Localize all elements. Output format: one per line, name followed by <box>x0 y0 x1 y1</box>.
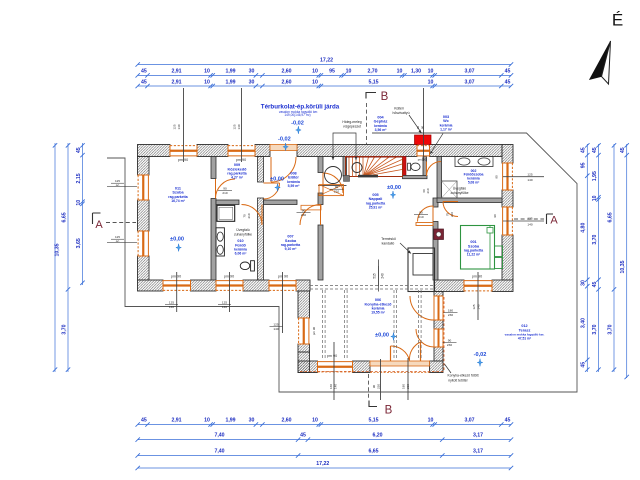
002 basin counter <box>455 157 493 167</box>
svg-text:30: 30 <box>249 417 255 423</box>
svg-text:Terméskő: Terméskő <box>381 237 396 241</box>
svg-text:180: 180 <box>448 309 453 313</box>
svg-text:Hideg-meleg: Hideg-meleg <box>342 120 361 124</box>
orange bar above door 005-001 <box>416 223 433 226</box>
svg-text:140: 140 <box>222 305 227 309</box>
svg-text:É: É <box>612 11 623 30</box>
window W4 pm90 <box>170 145 197 157</box>
svg-text:3,70: 3,70 <box>592 324 598 334</box>
svg-text:2,70: 2,70 <box>367 69 377 75</box>
svg-text:-0,02: -0,02 <box>291 120 304 126</box>
svg-text:140: 140 <box>177 124 181 129</box>
svg-text:90: 90 <box>420 126 424 130</box>
svg-text:3,56 m²: 3,56 m² <box>375 128 388 132</box>
kitchen dashed lines <box>322 290 324 360</box>
svg-text:210: 210 <box>247 213 251 218</box>
svg-text:6,65: 6,65 <box>61 212 67 222</box>
svg-text:7,40: 7,40 <box>214 448 224 454</box>
svg-text:140: 140 <box>333 384 337 389</box>
svg-text:45: 45 <box>505 417 511 423</box>
svg-text:125: 125 <box>169 301 174 305</box>
red new wall at stairs <box>403 157 407 177</box>
svg-text:2,60: 2,60 <box>281 417 291 423</box>
svg-text:45: 45 <box>141 79 147 85</box>
sidewalk and terrace boundary <box>107 133 577 392</box>
svg-text:90: 90 <box>223 187 227 191</box>
svg-text:30: 30 <box>249 79 255 85</box>
window Wr2 <box>502 207 513 235</box>
svg-text:10: 10 <box>204 69 210 75</box>
svg-text:7,40: 7,40 <box>214 432 224 438</box>
svg-text:60: 60 <box>422 189 426 193</box>
svg-text:90: 90 <box>335 185 339 189</box>
section marker B top <box>366 93 376 99</box>
svg-text:210: 210 <box>334 190 339 194</box>
svg-text:pm 90: pm 90 <box>327 354 337 358</box>
svg-text:3,40: 3,40 <box>581 318 587 328</box>
svg-text:1,95: 1,95 <box>592 171 598 181</box>
svg-text:240: 240 <box>381 273 385 279</box>
door 008-005 <box>323 173 343 193</box>
002 shower <box>442 181 458 198</box>
svg-text:230: 230 <box>448 313 453 317</box>
svg-text:140: 140 <box>237 124 241 129</box>
svg-text:60: 60 <box>116 184 120 188</box>
svg-text:10: 10 <box>312 79 318 85</box>
window W2 <box>216 280 243 291</box>
svg-text:10,35: 10,35 <box>620 260 626 273</box>
svg-text:kandalló: kandalló <box>382 241 395 245</box>
svg-text:5,15: 5,15 <box>368 79 378 85</box>
svg-text:A: A <box>550 215 558 227</box>
kitchen right door 90/230 <box>434 329 443 347</box>
svg-text:95: 95 <box>581 162 587 168</box>
interior walls <box>211 157 216 179</box>
svg-text:115: 115 <box>115 179 120 183</box>
010 wc fixture <box>251 261 255 271</box>
door 007 <box>300 205 321 226</box>
north arrow <box>590 11 624 85</box>
svg-text:10: 10 <box>204 79 210 85</box>
kitchen terrace double door opening <box>370 361 430 366</box>
svg-text:125: 125 <box>233 124 237 129</box>
svg-text:60: 60 <box>116 240 120 244</box>
svg-text:10: 10 <box>346 69 352 75</box>
svg-text:pm 90: pm 90 <box>312 327 316 336</box>
svg-text:hőszivattyú: hőszivattyú <box>393 111 410 115</box>
svg-text:pm 90: pm 90 <box>178 158 188 162</box>
door 011 <box>216 179 236 199</box>
svg-text:Kültéri: Kültéri <box>394 106 404 110</box>
svg-text:4,27 m²: 4,27 m² <box>231 176 244 180</box>
svg-text:90: 90 <box>495 175 499 179</box>
svg-text:10: 10 <box>428 417 434 423</box>
section marker B bottom <box>368 374 370 398</box>
svg-text:125: 125 <box>527 172 532 176</box>
window Wa 115/60 <box>138 175 150 200</box>
svg-text:5,59 m²: 5,59 m² <box>288 184 301 188</box>
svg-text:3,07: 3,07 <box>464 417 474 423</box>
svg-text:B: B <box>385 405 393 417</box>
svg-text:210: 210 <box>222 191 227 195</box>
svg-text:16,74 m²: 16,74 m² <box>171 199 185 203</box>
door 005-001 <box>418 206 434 222</box>
svg-text:11,22 m²: 11,22 m² <box>467 253 481 257</box>
svg-text:180: 180 <box>402 384 406 389</box>
svg-text:-0,02: -0,02 <box>474 352 487 358</box>
001 furniture green <box>461 226 503 270</box>
stair newel block <box>344 175 350 181</box>
svg-text:5,08 m²: 5,08 m² <box>468 181 480 185</box>
svg-text:90: 90 <box>302 209 306 213</box>
svg-text:140: 140 <box>527 178 532 182</box>
svg-text:125: 125 <box>472 304 476 309</box>
svg-text:1,99: 1,99 <box>225 417 235 423</box>
door arc entrance <box>271 157 296 182</box>
svg-text:10: 10 <box>312 69 318 75</box>
svg-text:10: 10 <box>428 79 434 85</box>
window W3 <box>269 280 296 291</box>
svg-text:10: 10 <box>312 417 318 423</box>
door 008-009 <box>264 183 280 199</box>
svg-text:3,70: 3,70 <box>592 234 598 244</box>
section marker A left <box>93 213 101 224</box>
kitchen right door 180/230 <box>434 296 443 320</box>
svg-text:90: 90 <box>419 211 423 215</box>
svg-text:45: 45 <box>141 417 147 423</box>
svg-text:3,17: 3,17 <box>473 448 483 454</box>
svg-text:45: 45 <box>76 147 82 153</box>
svg-text:5,15: 5,15 <box>368 417 378 423</box>
svg-text:A: A <box>95 219 103 231</box>
svg-text:125: 125 <box>173 124 177 129</box>
window Wr1 <box>502 163 513 190</box>
svg-text:10: 10 <box>428 69 434 75</box>
svg-text:Üvegfalú: Üvegfalú <box>453 187 466 191</box>
svg-text:2,91: 2,91 <box>171 69 181 75</box>
svg-text:230: 230 <box>376 384 380 389</box>
svg-text:pm 90: pm 90 <box>472 274 482 278</box>
window W5 pm90 <box>228 145 255 157</box>
svg-text:25,91 m²: 25,91 m² <box>369 205 383 209</box>
svg-text:6,65: 6,65 <box>368 448 378 454</box>
svg-text:4,80: 4,80 <box>581 223 587 233</box>
svg-text:45: 45 <box>592 147 598 153</box>
010 shower tray <box>217 205 235 221</box>
section marker A right <box>514 218 544 220</box>
svg-text:210: 210 <box>418 215 423 219</box>
svg-text:45: 45 <box>620 147 626 153</box>
svg-text:70: 70 <box>243 214 247 218</box>
007 radiator <box>301 205 321 210</box>
svg-text:90: 90 <box>448 339 452 343</box>
svg-text:3,65: 3,65 <box>76 238 82 248</box>
bottom dimension chains <box>138 424 511 426</box>
svg-text:30: 30 <box>581 280 587 286</box>
door 010 <box>242 205 263 226</box>
svg-text:45: 45 <box>581 362 587 368</box>
svg-text:2,15: 2,15 <box>76 173 82 183</box>
svg-text:nyitott tetőtér: nyitott tetőtér <box>448 378 468 382</box>
svg-text:140: 140 <box>476 304 480 309</box>
svg-text:±0,00: ±0,00 <box>170 237 184 243</box>
svg-text:2,91: 2,91 <box>171 79 181 85</box>
flue box <box>434 229 444 240</box>
svg-text:pm 90: pm 90 <box>278 274 288 278</box>
svg-text:45: 45 <box>505 69 511 75</box>
svg-text:3,07: 3,07 <box>464 79 474 85</box>
svg-text:125: 125 <box>527 217 532 221</box>
svg-text:2,60: 2,60 <box>281 69 291 75</box>
svg-text:30: 30 <box>249 69 255 75</box>
right dimension chains <box>586 144 588 372</box>
window Wk2 <box>318 361 353 373</box>
svg-text:±0,00: ±0,00 <box>387 185 401 191</box>
svg-text:10: 10 <box>397 69 403 75</box>
svg-text:140: 140 <box>169 305 174 309</box>
svg-text:95: 95 <box>329 69 335 75</box>
svg-text:230: 230 <box>301 213 306 217</box>
window W1 <box>163 280 191 291</box>
svg-text:19,55 m²: 19,55 m² <box>371 311 385 315</box>
svg-text:10,35: 10,35 <box>55 243 61 256</box>
svg-text:-0,02: -0,02 <box>278 137 291 143</box>
010 double basin <box>216 228 224 256</box>
svg-text:17,22: 17,22 <box>320 58 333 64</box>
svg-text:pm190: pm190 <box>418 158 427 162</box>
svg-text:149,00(146,97 m²): 149,00(146,97 m²) <box>284 113 310 117</box>
svg-text:230: 230 <box>447 343 452 347</box>
kitchen bottom double door arcs <box>391 346 410 361</box>
svg-text:45: 45 <box>141 69 147 75</box>
svg-text:zuhanyfülke: zuhanyfülke <box>234 233 252 237</box>
open roof dashed (orange) <box>443 297 445 372</box>
window Wk1 <box>298 318 310 344</box>
svg-text:vízgépészet: vízgépészet <box>343 124 361 128</box>
wc 003 fixture <box>408 163 411 170</box>
svg-text:3,70: 3,70 <box>607 324 613 334</box>
svg-text:B: B <box>381 91 389 103</box>
kitchen right door arcs <box>410 296 434 320</box>
svg-text:3,07: 3,07 <box>464 69 474 75</box>
svg-text:90: 90 <box>372 385 376 389</box>
svg-text:±0,00: ±0,00 <box>270 177 284 183</box>
svg-text:160: 160 <box>329 384 333 389</box>
svg-text:125: 125 <box>222 301 227 305</box>
top dimension chains <box>138 64 511 66</box>
outer walls hatched <box>138 145 171 157</box>
svg-text:Üvegfalú: Üvegfalú <box>236 228 249 232</box>
svg-text:10: 10 <box>204 417 210 423</box>
witness lines <box>176 272 178 312</box>
entrance door D1 <box>270 145 297 151</box>
svg-text:515: 515 <box>373 273 377 279</box>
svg-text:45: 45 <box>581 147 587 153</box>
window Wb 115/60 <box>138 231 150 256</box>
svg-text:1,99: 1,99 <box>225 69 235 75</box>
gephaz boiler circles <box>325 167 342 184</box>
svg-text:125: 125 <box>273 323 278 327</box>
svg-text:3,17: 3,17 <box>473 432 483 438</box>
svg-text:45: 45 <box>300 432 306 438</box>
svg-text:pm 90: pm 90 <box>236 158 246 162</box>
svg-text:45: 45 <box>505 79 511 85</box>
svg-text:47,51 m²: 47,51 m² <box>518 337 532 341</box>
svg-text:pm 90: pm 90 <box>171 274 181 278</box>
svg-text:2,60: 2,60 <box>281 79 291 85</box>
svg-text:6,06 m²: 6,06 m² <box>235 252 248 256</box>
svg-text:9,10 m²: 9,10 m² <box>285 247 298 251</box>
svg-text:10: 10 <box>592 195 598 201</box>
stair break bar <box>358 175 378 178</box>
outdoor heat pump (red) <box>415 135 432 145</box>
svg-text:pm 90: pm 90 <box>224 274 234 278</box>
svg-text:3,70: 3,70 <box>61 324 67 334</box>
svg-text:140: 140 <box>273 327 278 331</box>
gephaz lower wall line <box>318 185 347 187</box>
svg-text:1,99: 1,99 <box>225 79 235 85</box>
left dimension chains <box>82 143 84 285</box>
svg-text:140: 140 <box>527 223 532 227</box>
svg-text:zuhanyfülke: zuhanyfülke <box>450 191 468 195</box>
svg-text:90: 90 <box>493 214 497 218</box>
svg-text:115: 115 <box>115 235 120 239</box>
window W7 <box>464 280 492 292</box>
svg-text:75: 75 <box>446 213 450 217</box>
svg-text:6,20: 6,20 <box>372 432 382 438</box>
svg-text:2,91: 2,91 <box>171 417 181 423</box>
svg-text:±0,00: ±0,00 <box>375 333 389 339</box>
svg-text:10: 10 <box>76 200 82 206</box>
svg-text:210: 210 <box>450 212 454 217</box>
fireplace <box>408 248 435 292</box>
svg-text:210: 210 <box>426 188 430 193</box>
stairs <box>346 157 403 177</box>
svg-text:6,65: 6,65 <box>607 212 613 222</box>
svg-text:1,17 m²: 1,17 m² <box>440 127 453 131</box>
svg-text:230: 230 <box>406 384 410 389</box>
kitchen opening witness 515/240 <box>377 260 379 292</box>
svg-text:45: 45 <box>592 282 598 288</box>
svg-text:17,22: 17,22 <box>316 461 329 467</box>
svg-text:Konyha-étkező fűtött: Konyha-étkező fűtött <box>447 374 478 378</box>
gephaz washing machine <box>319 185 344 196</box>
door 002-001 <box>443 202 458 217</box>
svg-text:1,30: 1,30 <box>411 69 421 75</box>
door wc <box>427 162 442 177</box>
window W6 under heat pump <box>417 145 430 157</box>
